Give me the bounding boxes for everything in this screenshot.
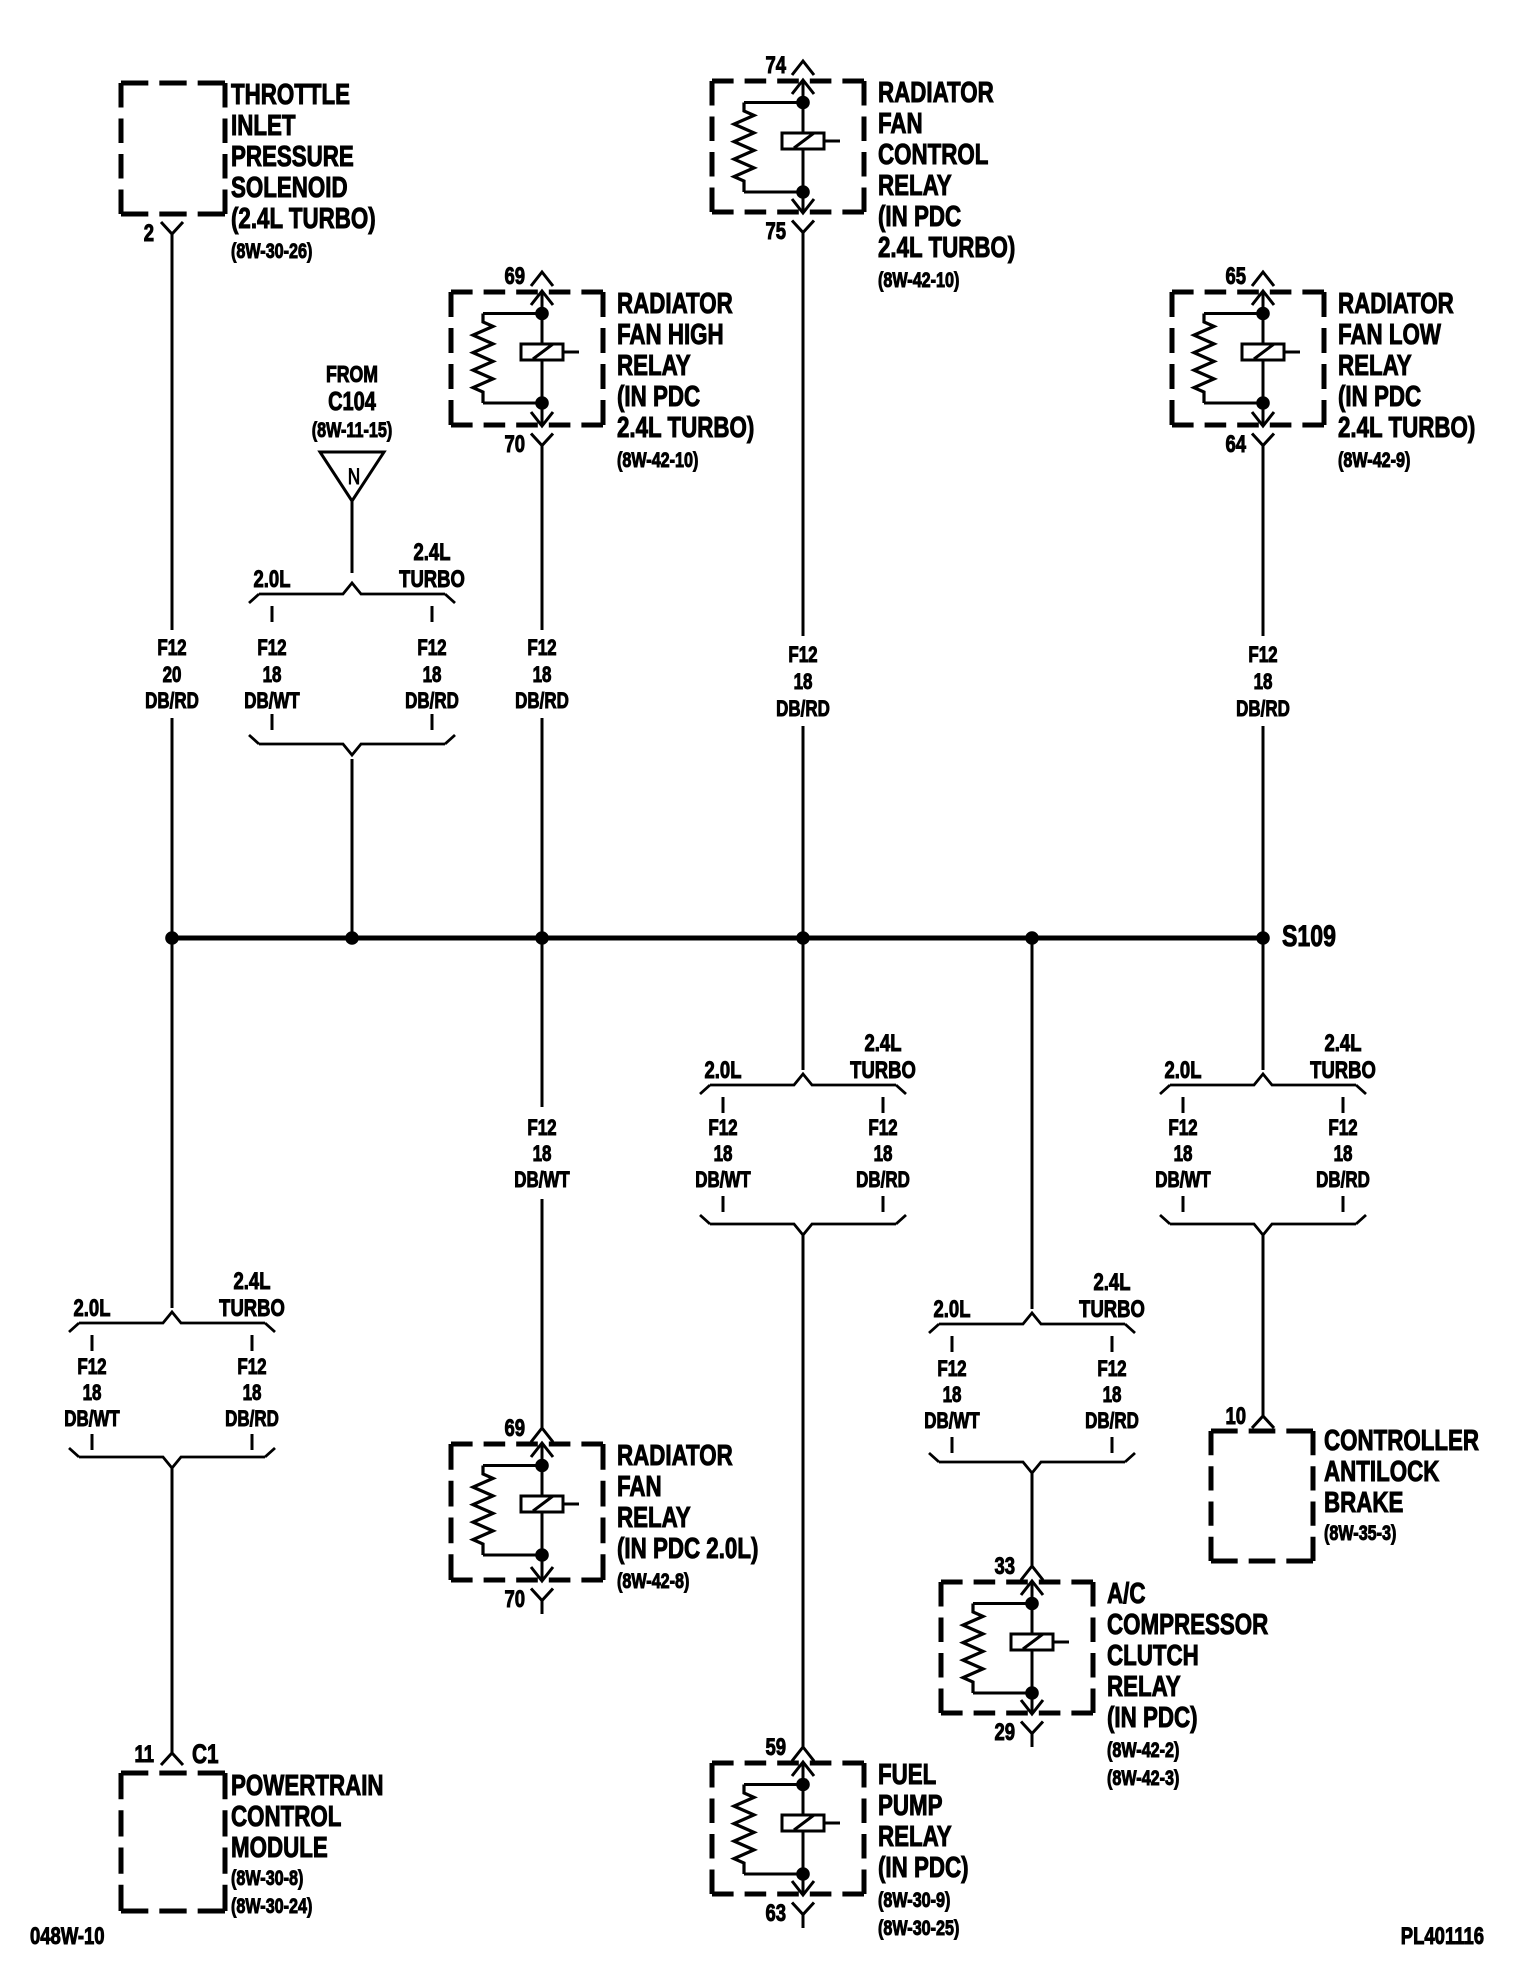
wire: label down to splice S109 xyxy=(541,718,544,938)
junction node (coil/resistor bottom) xyxy=(535,1548,549,1562)
svg-text:TURBO: TURBO xyxy=(1079,1296,1145,1323)
svg-text:COMPRESSOR: COMPRESSOR xyxy=(1107,1609,1269,1640)
pin 59 case entry chevron xyxy=(792,1762,814,1776)
wire: bottom node to resistor xyxy=(744,1873,803,1876)
svg-text:DB/WT: DB/WT xyxy=(695,1168,750,1193)
resistor (in A/C compressor clutch relay K6) xyxy=(963,1604,983,1694)
label: radiator fan relay K4 xyxy=(617,1440,758,1592)
junction node (coil/resistor top) xyxy=(535,307,549,321)
junction node (coil/resistor bottom) xyxy=(1025,1686,1039,1700)
svg-text:18: 18 xyxy=(83,1381,102,1406)
resistor (in radiator fan control relay K2) xyxy=(734,103,754,193)
svg-text:20: 20 xyxy=(163,663,182,688)
label: wire F12 18 DB/WT (2.0L A/C) xyxy=(924,1357,979,1434)
svg-text:2.4L: 2.4L xyxy=(1325,1030,1362,1057)
junction node (coil/resistor top) xyxy=(796,1778,810,1792)
wire: top pin to bottom pin through coil xyxy=(541,291,544,426)
svg-text:RADIATOR: RADIATOR xyxy=(878,77,994,108)
wire: 2.0L branch stub lower xyxy=(271,714,274,730)
svg-text:(2.4L TURBO): (2.4L TURBO) xyxy=(231,203,376,234)
svg-text:F12: F12 xyxy=(1168,1116,1197,1141)
pin 69 terminal (top) xyxy=(531,1428,553,1442)
engine variant split (open) below C104 xyxy=(259,583,445,594)
wire: split join down to A/C relay pin 33 xyxy=(1031,1473,1034,1566)
svg-text:FROM: FROM xyxy=(326,362,378,388)
wire: 2.4L TURBO branch stub lower xyxy=(431,714,434,730)
wire: coil stub xyxy=(1284,351,1300,354)
svg-text:74: 74 xyxy=(765,52,786,79)
svg-text:PUMP: PUMP xyxy=(878,1790,943,1821)
wire: C104 down to engine split xyxy=(351,501,354,573)
label: powertrain control module xyxy=(231,1770,384,1917)
controller antilock brake (component box) xyxy=(1211,1429,1313,1434)
fuel pump relay K5 dashed case xyxy=(712,1761,864,1766)
radiator fan low relay K3 xyxy=(1172,263,1324,459)
junction node S109-C xyxy=(535,931,549,945)
pin 33 case entry chevron xyxy=(1021,1581,1043,1595)
svg-text:2.0L: 2.0L xyxy=(74,1295,111,1322)
svg-text:69: 69 xyxy=(504,1415,525,1442)
svg-text:A/C: A/C xyxy=(1107,1578,1145,1609)
engine variant split (close) A/C xyxy=(939,1462,1125,1473)
radiator fan low relay K3 dashed case xyxy=(1172,290,1324,295)
svg-text:(8W-11-15): (8W-11-15) xyxy=(312,418,393,442)
label: radiator fan low relay K3 xyxy=(1338,288,1475,471)
wire: 2.4L TURBO branch stub xyxy=(431,606,434,622)
engine variant split (open) PCM branch xyxy=(79,1312,265,1323)
relay coil (in fuel pump relay K5) xyxy=(782,1815,824,1831)
svg-text:(8W-35-3): (8W-35-3) xyxy=(1324,1521,1396,1545)
svg-text:RADIATOR: RADIATOR xyxy=(617,1440,733,1471)
svg-text:CONTROL: CONTROL xyxy=(878,139,989,170)
resistor (in radiator fan relay K4) xyxy=(473,1466,493,1556)
svg-text:DB/RD: DB/RD xyxy=(776,697,830,722)
pin 65 case entry chevron xyxy=(1252,291,1274,305)
wire: bottom node to resistor xyxy=(483,402,542,405)
wire: top pin to bottom pin through coil xyxy=(1031,1581,1034,1714)
wire: split join down to splice S109 xyxy=(351,759,354,938)
connector C104 feed label xyxy=(312,362,393,442)
label: wire F12 18 DB/RD (fan control) xyxy=(776,643,830,722)
label: wire F12 18 DB/WT (2.0L fuel pump) xyxy=(695,1116,750,1193)
wire: fan low relay pin 64 down to label xyxy=(1262,446,1265,637)
svg-text:N: N xyxy=(348,465,360,490)
svg-text:2.0L: 2.0L xyxy=(1165,1057,1202,1084)
junction node (coil/resistor bottom) xyxy=(796,185,810,199)
pin 64 terminal (bottom) xyxy=(1252,434,1274,446)
svg-text:C1: C1 xyxy=(192,1739,219,1769)
radiator fan high relay K1 xyxy=(451,263,603,459)
wire: splice S109 down to label (fan relay feed) xyxy=(541,938,544,1107)
wire: coil stub xyxy=(563,1503,579,1506)
wire: top node to resistor xyxy=(1204,312,1263,315)
svg-text:29: 29 xyxy=(994,1719,1015,1746)
svg-text:FAN LOW: FAN LOW xyxy=(1338,319,1441,350)
pin 33 terminal (top) xyxy=(1021,1566,1043,1580)
wire: top node to resistor xyxy=(744,1783,803,1786)
svg-text:TURBO: TURBO xyxy=(1310,1057,1376,1084)
svg-text:2.4L TURBO): 2.4L TURBO) xyxy=(617,412,754,443)
svg-text:F12: F12 xyxy=(527,1116,556,1141)
wire: 2.0L branch stub xyxy=(91,1335,94,1351)
junction node S109-E xyxy=(1025,931,1039,945)
svg-text:F12: F12 xyxy=(1328,1116,1357,1141)
radiator fan relay K4 xyxy=(451,1415,603,1614)
svg-text:(IN PDC): (IN PDC) xyxy=(878,1852,969,1883)
svg-text:THROTTLE: THROTTLE xyxy=(231,79,350,110)
engine variant split (close) fuel pump xyxy=(710,1224,896,1235)
wire: branch stubs lower xyxy=(1182,1196,1185,1212)
radiator fan control relay K2 xyxy=(712,52,864,246)
svg-text:FAN: FAN xyxy=(878,108,923,139)
svg-text:(8W-30-26): (8W-30-26) xyxy=(231,239,312,263)
svg-text:64: 64 xyxy=(1225,431,1246,458)
pin 59 terminal (top) xyxy=(792,1747,814,1761)
pin 10 terminal of controller antilock brake xyxy=(1252,1416,1274,1428)
label: wire F12 18 DB/WT (2.0L CAB) xyxy=(1155,1116,1210,1193)
junction node (coil/resistor bottom) xyxy=(796,1867,810,1881)
svg-text:C104: C104 xyxy=(328,386,376,415)
svg-text:ANTILOCK: ANTILOCK xyxy=(1324,1456,1440,1487)
svg-text:18: 18 xyxy=(794,670,813,695)
svg-text:70: 70 xyxy=(504,431,525,458)
svg-text:(IN PDC: (IN PDC xyxy=(1338,381,1421,412)
svg-text:RELAY: RELAY xyxy=(617,350,691,381)
label: wire F12 18 DB/RD (2.4L fuel pump) xyxy=(856,1116,910,1193)
svg-text:SOLENOID: SOLENOID xyxy=(231,172,348,203)
svg-text:18: 18 xyxy=(874,1142,893,1167)
svg-text:DB/RD: DB/RD xyxy=(225,1407,279,1432)
svg-text:2.4L TURBO): 2.4L TURBO) xyxy=(878,232,1015,263)
svg-text:TURBO: TURBO xyxy=(399,566,465,593)
label: wire F12 20 DB/RD (solenoid feed) xyxy=(145,636,199,714)
junction node (coil/resistor bottom) xyxy=(1256,396,1270,410)
A/C compressor clutch relay K6 dashed case xyxy=(941,1580,1093,1585)
throttle inlet pressure solenoid (component box) xyxy=(121,81,225,86)
pin 69 case entry chevron xyxy=(531,1443,553,1457)
engine variant split (close) PCM xyxy=(79,1457,265,1468)
svg-text:TURBO: TURBO xyxy=(219,1295,285,1322)
svg-text:18: 18 xyxy=(714,1142,733,1167)
svg-text:18: 18 xyxy=(423,663,442,688)
label: wire F12 18 DB/RD (fan high) xyxy=(515,636,569,714)
relay coil (in radiator fan relay K4) xyxy=(521,1496,563,1512)
wire: top pin to bottom pin through coil xyxy=(541,1443,544,1581)
svg-text:(8W-42-10): (8W-42-10) xyxy=(878,268,959,292)
wire: coil stub xyxy=(824,140,840,143)
svg-text:18: 18 xyxy=(1334,1142,1353,1167)
wire: 2.0L branch stub xyxy=(271,606,274,622)
resistor (in radiator fan low relay K3) xyxy=(1194,314,1214,404)
wire: branch stubs xyxy=(722,1097,725,1113)
wire: splice S109 down to A/C engine split xyxy=(1031,938,1034,1309)
junction node (coil/resistor top) xyxy=(1025,1597,1039,1611)
wire: top node to resistor xyxy=(744,101,803,104)
svg-text:F12: F12 xyxy=(77,1355,106,1380)
wire: top pin to bottom pin through coil xyxy=(1262,291,1265,426)
svg-text:F12: F12 xyxy=(937,1357,966,1382)
svg-text:2.4L: 2.4L xyxy=(414,539,451,566)
svg-text:POWERTRAIN: POWERTRAIN xyxy=(231,1770,384,1801)
svg-text:(8W-42-3): (8W-42-3) xyxy=(1107,1766,1179,1790)
label: wire F12 18 DB/RD (2.4L turbo) xyxy=(405,636,459,714)
wire: bottom node to resistor xyxy=(744,191,803,194)
pin 75 case exit chevron xyxy=(792,199,814,213)
svg-text:DB/RD: DB/RD xyxy=(1236,697,1290,722)
svg-text:2.4L: 2.4L xyxy=(1094,1269,1131,1296)
svg-text:BRAKE: BRAKE xyxy=(1324,1487,1403,1518)
pin 29 terminal (bottom) xyxy=(1021,1722,1043,1734)
svg-text:(IN PDC: (IN PDC xyxy=(617,381,700,412)
wire: top pin to bottom pin through coil xyxy=(802,1762,805,1895)
svg-text:59: 59 xyxy=(765,1734,786,1761)
svg-text:18: 18 xyxy=(943,1383,962,1408)
svg-text:F12: F12 xyxy=(157,636,186,661)
svg-text:2.0L: 2.0L xyxy=(934,1296,971,1323)
svg-text:PRESSURE: PRESSURE xyxy=(231,141,354,172)
svg-text:PL401116: PL401116 xyxy=(1401,1923,1484,1950)
svg-text:18: 18 xyxy=(1174,1142,1193,1167)
junction node S109-A xyxy=(165,931,179,945)
svg-text:DB/WT: DB/WT xyxy=(924,1409,979,1434)
svg-text:F12: F12 xyxy=(708,1116,737,1141)
svg-text:F12: F12 xyxy=(868,1116,897,1141)
engine variant split (close) CAB xyxy=(1170,1224,1356,1235)
wire: fan high relay pin 70 down to label xyxy=(541,446,544,631)
svg-text:S109: S109 xyxy=(1282,919,1336,953)
engine variant split (open) A/C xyxy=(939,1313,1125,1324)
svg-text:2.0L: 2.0L xyxy=(705,1057,742,1084)
wire: branch stubs lower xyxy=(722,1196,725,1212)
svg-text:RELAY: RELAY xyxy=(617,1502,691,1533)
svg-text:RELAY: RELAY xyxy=(1338,350,1412,381)
pin 69 terminal (top) xyxy=(531,272,553,286)
label: wire F12 18 DB/RD (2.4L A/C) xyxy=(1085,1357,1139,1434)
junction node (coil/resistor top) xyxy=(1256,307,1270,321)
svg-text:RELAY: RELAY xyxy=(878,1821,952,1852)
svg-text:70: 70 xyxy=(504,1586,525,1613)
label: wire F12 18 DB/RD (2.4L PCM) xyxy=(225,1355,279,1432)
svg-text:18: 18 xyxy=(533,1142,552,1167)
wire: label to splice S109 bus xyxy=(171,718,174,938)
label: wire F12 18 DB/RD (2.4L CAB) xyxy=(1316,1116,1370,1193)
fuel pump relay K5 xyxy=(712,1734,864,1928)
wire: coil stub xyxy=(824,1822,840,1825)
wire: splice S109 down to fuel pump engine split xyxy=(802,938,805,1070)
label: A/C compressor clutch relay K6 xyxy=(1107,1578,1269,1789)
radiator fan high relay K1 dashed case xyxy=(451,290,603,295)
connector C104 off-page triangle symbol xyxy=(320,452,384,501)
svg-text:18: 18 xyxy=(1103,1383,1122,1408)
svg-text:F12: F12 xyxy=(527,636,556,661)
svg-text:TURBO: TURBO xyxy=(850,1057,916,1084)
label: fuel pump relay K5 xyxy=(878,1759,969,1939)
svg-text:33: 33 xyxy=(994,1553,1015,1580)
wire: split join down to PCM pin 11 xyxy=(171,1468,174,1753)
svg-text:2.4L: 2.4L xyxy=(865,1030,902,1057)
label: wire F12 18 DB/WT (fan relay) xyxy=(514,1116,569,1193)
svg-text:DB/RD: DB/RD xyxy=(145,689,199,714)
pin 11 terminal of PCM connector C1 xyxy=(161,1753,183,1765)
svg-text:(IN PDC: (IN PDC xyxy=(878,201,961,232)
label: wire F12 18 DB/WT (2.0L PCM) xyxy=(64,1355,119,1432)
label: wire F12 18 DB/WT (2.0L) xyxy=(244,636,299,714)
svg-text:2.0L: 2.0L xyxy=(254,566,291,593)
wire: top pin to bottom pin through coil xyxy=(802,80,805,213)
svg-text:F12: F12 xyxy=(237,1355,266,1380)
svg-text:F12: F12 xyxy=(788,643,817,668)
svg-text:(8W-30-9): (8W-30-9) xyxy=(878,1888,950,1912)
svg-text:18: 18 xyxy=(263,663,282,688)
pin 74 case entry chevron xyxy=(792,80,814,94)
wire: branch stubs lower xyxy=(951,1437,954,1453)
svg-text:DB/WT: DB/WT xyxy=(64,1407,119,1432)
svg-text:(8W-42-9): (8W-42-9) xyxy=(1338,448,1410,472)
svg-text:F12: F12 xyxy=(1097,1357,1126,1382)
svg-text:(8W-30-8): (8W-30-8) xyxy=(231,1866,303,1890)
wire: split join down to CAB pin 10 xyxy=(1262,1235,1265,1416)
label: radiator fan control relay K2 xyxy=(878,77,1015,291)
pin 70 terminal (bottom) xyxy=(531,434,553,446)
svg-text:DB/WT: DB/WT xyxy=(1155,1168,1210,1193)
pin 63 terminal (bottom) xyxy=(792,1903,814,1915)
A/C compressor clutch relay K6 xyxy=(941,1553,1093,1747)
svg-text:18: 18 xyxy=(1254,670,1273,695)
svg-text:63: 63 xyxy=(765,1900,786,1927)
pin 2 terminal of solenoid xyxy=(161,222,183,234)
wire: branch stubs xyxy=(1182,1097,1185,1113)
resistor (in radiator fan high relay K1) xyxy=(473,314,493,404)
pin 64 case exit chevron xyxy=(1252,412,1274,426)
svg-text:CONTROL: CONTROL xyxy=(231,1801,342,1832)
wire: coil stub xyxy=(1053,1641,1069,1644)
label: controller antilock brake xyxy=(1324,1425,1479,1544)
svg-text:DB/WT: DB/WT xyxy=(244,689,299,714)
wire: top node to resistor xyxy=(973,1602,1032,1605)
pin 70 terminal (bottom) xyxy=(531,1589,553,1601)
pin 74 terminal (top) xyxy=(792,61,814,75)
radiator fan relay K4 dashed case xyxy=(451,1442,603,1447)
svg-text:(IN PDC): (IN PDC) xyxy=(1107,1702,1198,1733)
svg-text:(8W-30-24): (8W-30-24) xyxy=(231,1894,312,1918)
svg-text:MODULE: MODULE xyxy=(231,1832,328,1863)
wire: splice S109 down to PCM engine split xyxy=(171,938,174,1308)
svg-text:18: 18 xyxy=(533,663,552,688)
svg-text:18: 18 xyxy=(243,1381,262,1406)
wire: coil stub xyxy=(563,351,579,354)
svg-text:69: 69 xyxy=(504,263,525,290)
pin 65 terminal (top) xyxy=(1252,272,1274,286)
relay coil (in radiator fan high relay K1) xyxy=(521,344,563,360)
wire: label down to splice S109 xyxy=(802,726,805,938)
svg-text:RELAY: RELAY xyxy=(878,170,952,201)
wire: branch stubs lower xyxy=(91,1434,94,1450)
relay coil (in radiator fan low relay K3) xyxy=(1242,344,1284,360)
wire: top node to resistor xyxy=(483,312,542,315)
pin 70 case exit chevron xyxy=(531,1567,553,1581)
wire: branch stubs xyxy=(951,1336,954,1352)
svg-text:048W-10: 048W-10 xyxy=(30,1923,105,1950)
svg-text:(IN PDC 2.0L): (IN PDC 2.0L) xyxy=(617,1533,758,1564)
engine variant split (open) fuel pump xyxy=(710,1074,896,1085)
svg-text:(8W-42-8): (8W-42-8) xyxy=(617,1569,689,1593)
svg-text:(8W-30-25): (8W-30-25) xyxy=(878,1916,959,1940)
junction node (coil/resistor top) xyxy=(796,96,810,110)
junction node (coil/resistor top) xyxy=(535,1459,549,1473)
junction node S109-B xyxy=(345,931,359,945)
resistor (in fuel pump relay K5) xyxy=(734,1785,754,1875)
splice S109 bus wire xyxy=(172,936,1263,941)
engine variant split (close) above bus xyxy=(259,744,445,755)
radiator fan control relay K2 dashed case xyxy=(712,79,864,84)
wire: bottom node to resistor xyxy=(973,1692,1032,1695)
svg-text:(8W-42-10): (8W-42-10) xyxy=(617,448,698,472)
svg-text:2.4L TURBO): 2.4L TURBO) xyxy=(1338,412,1475,443)
label: throttle inlet pressure solenoid xyxy=(231,79,376,262)
label: wire F12 18 DB/RD (fan low) xyxy=(1236,643,1290,722)
wire: fan control relay pin 75 down to label xyxy=(802,233,805,637)
wire: top node to resistor xyxy=(483,1464,542,1467)
svg-text:CLUTCH: CLUTCH xyxy=(1107,1640,1199,1671)
svg-text:DB/RD: DB/RD xyxy=(515,689,569,714)
pin 75 terminal (bottom) xyxy=(792,221,814,233)
pin 70 case exit chevron xyxy=(531,412,553,426)
svg-text:FAN HIGH: FAN HIGH xyxy=(617,319,724,350)
svg-text:DB/RD: DB/RD xyxy=(1085,1409,1139,1434)
pin 69 case entry chevron xyxy=(531,291,553,305)
svg-text:DB/RD: DB/RD xyxy=(856,1168,910,1193)
svg-text:F12: F12 xyxy=(257,636,286,661)
svg-text:DB/WT: DB/WT xyxy=(514,1168,569,1193)
svg-text:RADIATOR: RADIATOR xyxy=(1338,288,1454,319)
svg-text:DB/RD: DB/RD xyxy=(1316,1168,1370,1193)
svg-text:10: 10 xyxy=(1225,1403,1246,1430)
svg-text:INLET: INLET xyxy=(231,110,296,141)
wire: bottom node to resistor xyxy=(1204,402,1263,405)
svg-text:DB/RD: DB/RD xyxy=(405,689,459,714)
wire: label down to fan relay pin 69 xyxy=(541,1199,544,1428)
junction node S109-F xyxy=(1256,931,1270,945)
wire: bottom node to resistor xyxy=(483,1554,542,1557)
svg-text:(8W-42-2): (8W-42-2) xyxy=(1107,1738,1179,1762)
wire: label down to splice S109 xyxy=(1262,726,1265,938)
svg-text:RELAY: RELAY xyxy=(1107,1671,1181,1702)
wire: splice S109 down to CAB engine split xyxy=(1262,938,1265,1070)
svg-text:2.4L: 2.4L xyxy=(234,1268,271,1295)
svg-text:75: 75 xyxy=(765,218,786,245)
svg-text:F12: F12 xyxy=(1248,643,1277,668)
pin 63 case exit chevron xyxy=(792,1881,814,1895)
wire: split join down to fuel pump relay pin 59 xyxy=(802,1235,805,1747)
junction node (coil/resistor bottom) xyxy=(535,396,549,410)
junction node S109-D xyxy=(796,931,810,945)
svg-text:F12: F12 xyxy=(417,636,446,661)
engine variant split (open) CAB xyxy=(1170,1074,1356,1085)
wire: solenoid pin 2 down to label F12 xyxy=(171,234,174,630)
wire: 2.4L TURBO branch stub xyxy=(251,1335,254,1351)
svg-text:FAN: FAN xyxy=(617,1471,662,1502)
svg-text:FUEL: FUEL xyxy=(878,1759,936,1790)
label: radiator fan high relay K1 xyxy=(617,288,754,471)
svg-text:65: 65 xyxy=(1225,263,1246,290)
svg-text:RADIATOR: RADIATOR xyxy=(617,288,733,319)
svg-text:2: 2 xyxy=(144,220,154,247)
relay coil (in radiator fan control relay K2) xyxy=(782,133,824,149)
svg-text:CONTROLLER: CONTROLLER xyxy=(1324,1425,1479,1456)
pin 29 case exit chevron xyxy=(1021,1700,1043,1714)
svg-text:11: 11 xyxy=(134,1741,154,1768)
relay coil (in A/C compressor clutch relay K6) xyxy=(1011,1634,1053,1650)
